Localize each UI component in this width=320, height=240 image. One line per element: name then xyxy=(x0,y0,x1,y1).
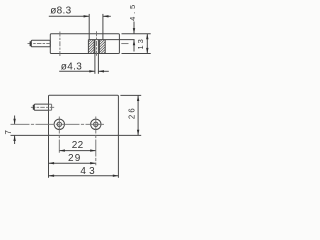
arrow dia8.3 tail left-pointing xyxy=(103,15,109,17)
centerline connector (front view) xyxy=(31,106,55,108)
arrow 7 down xyxy=(13,119,15,125)
centerline left hole (top view, vertical) xyxy=(59,32,61,57)
dim line 29 xyxy=(49,162,96,164)
connector tube (top view) xyxy=(31,40,50,47)
centerline body axis (top view) xyxy=(11,31,129,165)
centerline slot (top view, vertical) xyxy=(96,31,98,56)
arrow 22 right xyxy=(90,149,96,151)
arrowheads xyxy=(13,15,148,177)
svg-text:26: 26 xyxy=(128,106,137,119)
dim line 7 xyxy=(14,116,16,145)
left hole outer xyxy=(54,119,64,129)
body outline (top view) xyxy=(50,34,119,54)
slot counterbore shoulder line xyxy=(88,39,134,41)
arrow 43 left xyxy=(49,175,55,177)
extension line dia8.3 right xyxy=(102,14,104,40)
hatch section left wall xyxy=(88,40,94,54)
arrow 4.5 up xyxy=(133,40,135,46)
centerline holes horizontal xyxy=(11,123,105,125)
arrow dia4.3 tail left-pointing xyxy=(98,70,104,72)
svg-text:7: 7 xyxy=(4,130,13,134)
hatch section right wall xyxy=(99,40,105,54)
extension line dia4.3 right xyxy=(97,40,99,74)
arrow 22 left xyxy=(59,149,65,151)
arrow 26 down xyxy=(137,130,139,136)
plate outline (front view) xyxy=(49,95,119,135)
extension line plate left edge xyxy=(48,135,50,177)
arrow 7 up xyxy=(13,135,15,141)
connector nub (top view) xyxy=(30,41,32,46)
centerline body axis right overshoot xyxy=(121,43,128,45)
svg-text:13: 13 xyxy=(136,37,145,49)
svg-text:ø8.3: ø8.3 xyxy=(50,6,71,17)
hatch strokes left xyxy=(88,40,94,54)
svg-text:22: 22 xyxy=(72,140,84,151)
arrow 29 left xyxy=(49,162,55,164)
arrow 13 down xyxy=(146,48,148,54)
connector tube (front view) xyxy=(34,104,48,110)
arrow 43 right xyxy=(113,175,119,177)
svg-text:43: 43 xyxy=(80,166,98,177)
dim line 43 xyxy=(49,175,119,177)
svg-text:ø4.3: ø4.3 xyxy=(61,62,82,73)
arrow 4.5 down xyxy=(133,28,135,34)
dim line 26 xyxy=(137,95,139,135)
extension line bottom-left (dim 7) xyxy=(11,134,49,136)
left hole inner xyxy=(57,122,61,126)
arrow 29 right xyxy=(90,162,96,164)
dim line dia8.3 xyxy=(49,15,111,17)
dim line dia4.3 xyxy=(59,70,109,72)
dim line 13 xyxy=(146,34,148,54)
centerline left hole vertical xyxy=(58,117,60,153)
right hole outer xyxy=(91,119,101,129)
extension line plate right edge xyxy=(117,135,119,177)
centerline right hole vertical xyxy=(95,117,97,166)
arrow dia4.3 right-pointing xyxy=(89,70,95,72)
extension lines 26 xyxy=(118,95,141,135)
svg-text:29: 29 xyxy=(68,153,82,164)
hatch strokes right xyxy=(99,40,105,54)
arrow 26 up xyxy=(137,95,139,101)
svg-text:4.5: 4.5 xyxy=(128,2,137,21)
arrow dia8.3 right-pointing xyxy=(84,15,90,17)
right hole inner xyxy=(94,122,98,126)
extension line dia4.3 left xyxy=(94,40,96,74)
arrow 13 up xyxy=(146,34,148,40)
extension line dia8.3 left xyxy=(88,14,90,40)
extension lines 13 xyxy=(122,34,151,54)
hidden connector bore stubs xyxy=(49,104,52,110)
dim line 22 xyxy=(59,150,96,152)
dim line 4.5 xyxy=(133,22,135,52)
connector nub (front view) xyxy=(33,105,35,110)
